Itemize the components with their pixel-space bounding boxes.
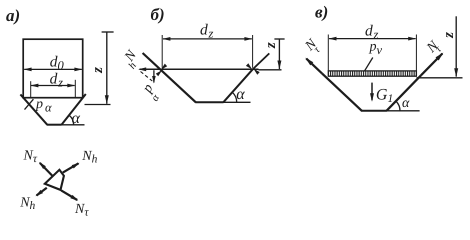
dz extension line right figure v xyxy=(415,35,417,71)
angle alpha arc figure b xyxy=(232,92,237,102)
angle alpha reference line figure v xyxy=(387,110,420,112)
left slope figure v xyxy=(322,73,362,110)
angle alpha arc figure v xyxy=(396,101,400,111)
svg-text:б): б) xyxy=(151,5,165,24)
leader line p_v figure v xyxy=(364,58,373,72)
arrowhead pair at right vertex figure b xyxy=(253,69,259,75)
z bottom reference line figure v xyxy=(417,77,463,79)
z bottom reference line figure a xyxy=(85,104,111,106)
trapezoid top edge figure b xyxy=(157,68,258,70)
dimension dz line figure v xyxy=(329,38,416,40)
force N_T left arrow figure v xyxy=(306,59,322,74)
force N_T lower-right arrow xyxy=(61,190,77,200)
svg-text:z: z xyxy=(441,32,457,39)
svg-text:а): а) xyxy=(6,6,20,25)
right slope figure v xyxy=(387,75,422,111)
svg-text:pν: pν xyxy=(369,39,383,57)
dimension z top tick figure a xyxy=(102,31,114,33)
bottom edge figure v xyxy=(361,110,387,112)
svg-text:p: p xyxy=(35,97,43,112)
left slope with extension figure b xyxy=(143,53,196,102)
right slope figure b xyxy=(223,69,252,102)
dz extension line right figure a xyxy=(74,80,76,98)
dimension z vertical line figure v xyxy=(455,16,457,76)
funnel right slope figure a xyxy=(62,94,86,125)
svg-text:α: α xyxy=(45,100,52,114)
angle alpha reference line figure b xyxy=(224,101,251,103)
force N_h arrow figure b xyxy=(140,68,161,70)
dimension z vertical line figure a xyxy=(106,32,108,104)
svg-text:α: α xyxy=(402,96,410,111)
top edge extension to z reference figure b xyxy=(259,69,282,71)
dz extension line left figure a xyxy=(30,81,32,98)
dimension z vertical line figure b xyxy=(278,39,280,69)
svg-text:z: z xyxy=(90,67,106,74)
svg-text:z: z xyxy=(263,42,279,49)
svg-text:α: α xyxy=(236,86,245,103)
angle alpha reference line figure a xyxy=(62,124,85,126)
funnel left slope figure a xyxy=(20,94,47,124)
funnel bottom edge figure a xyxy=(47,124,62,126)
force G_1 arrow figure v xyxy=(371,83,373,101)
dz extension line left figure b xyxy=(161,35,163,68)
dz extension line left figure v xyxy=(327,35,329,71)
force N_h lower-left arrow xyxy=(37,188,47,196)
dz extension line right figure b xyxy=(252,35,254,68)
right slope extension figure b xyxy=(253,53,270,69)
angle alpha arc figure a xyxy=(69,115,74,124)
vessel rectangle figure a xyxy=(23,39,82,97)
force P_alpha arrow figure b xyxy=(153,70,155,82)
dimension dz line figure a xyxy=(31,85,75,87)
trapezoid bottom edge figure b xyxy=(195,101,223,103)
wedge element xyxy=(45,170,64,190)
svg-text:в): в) xyxy=(315,3,328,22)
dimension dz line figure b xyxy=(163,38,252,40)
force P_alpha dashed construction figure b xyxy=(141,72,153,82)
force N_h upper-right arrow xyxy=(63,163,79,172)
force N_T upper-left arrow xyxy=(40,163,52,176)
pressure tick p_alpha figure a xyxy=(25,99,34,109)
arrowhead pair at left vertex figure b xyxy=(161,64,167,70)
dimension z top tick figure b xyxy=(274,38,284,40)
svg-text:α: α xyxy=(72,110,81,127)
hatched load strip p_v figure v xyxy=(328,71,416,76)
force N_T right arrow figure v xyxy=(421,54,442,76)
dimension d0 line xyxy=(24,68,82,70)
